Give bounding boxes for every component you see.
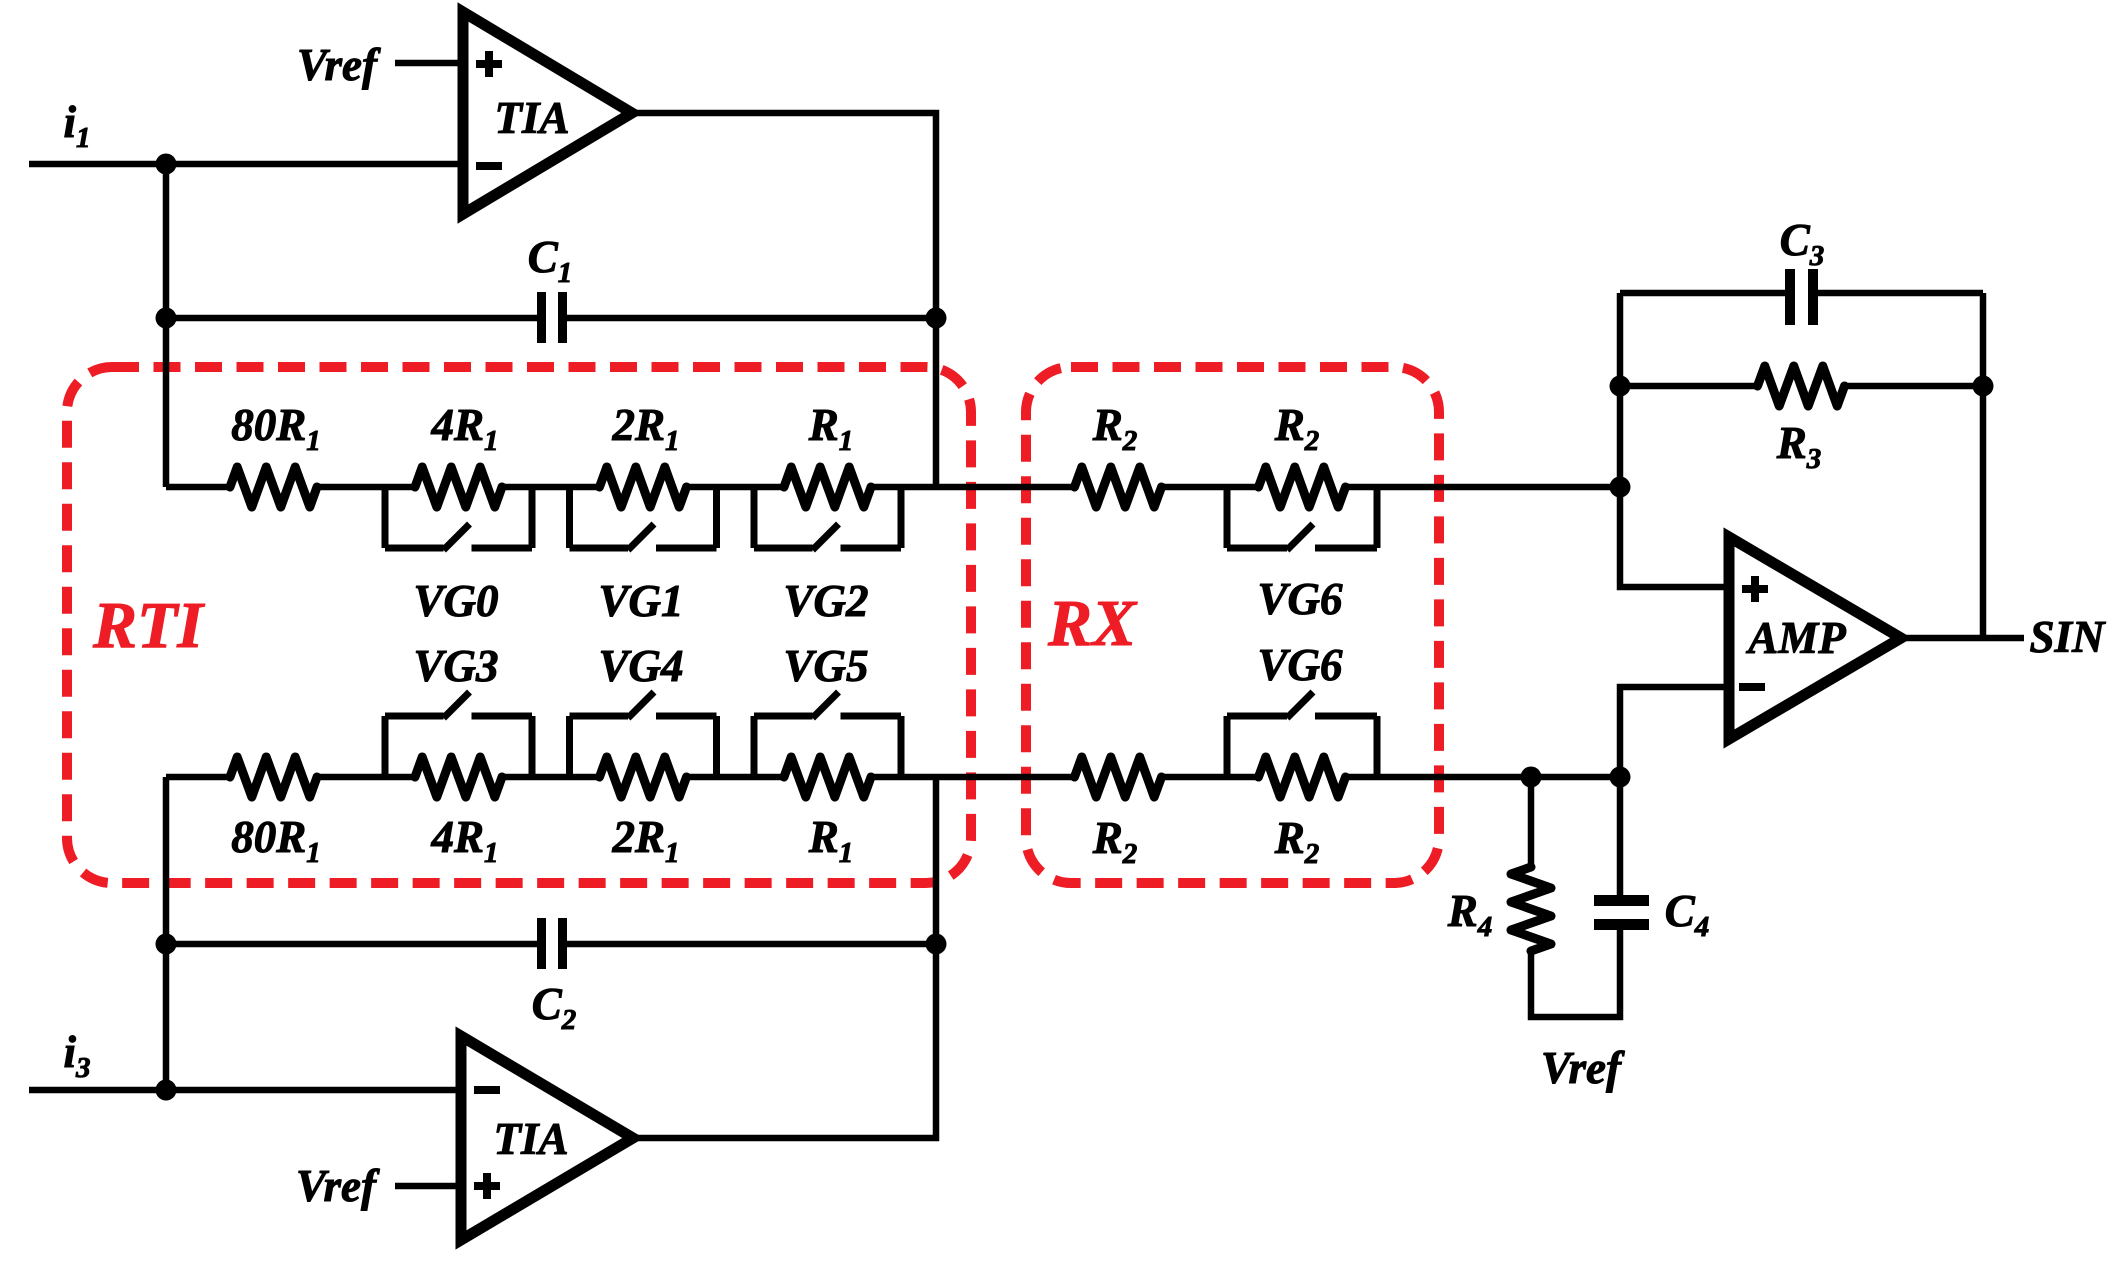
wire i1 input — [29, 161, 463, 168]
resistor 80R1 (bottom row) — [230, 757, 317, 797]
wire AMP + input node vertical — [1620, 293, 1729, 587]
svg-text:VG3: VG3 — [413, 641, 498, 691]
wire AMP output SIN — [1901, 635, 2024, 642]
node C2 left junction — [156, 934, 177, 955]
wire left vertical (i3 node) — [163, 777, 170, 1090]
wire feedback right vertical — [1980, 293, 1987, 638]
svg-text:Vref: Vref — [296, 1161, 380, 1211]
svg-text:VG1: VG1 — [598, 576, 683, 626]
wire Vref to TIA1 + — [395, 60, 463, 67]
resistor 2R1 (top row) — [600, 467, 687, 507]
RX block dashed box — [1026, 367, 1439, 883]
capacitor C3 — [1785, 269, 1818, 325]
svg-text:RX: RX — [1047, 587, 1138, 660]
RTI block dashed box — [67, 367, 971, 883]
svg-text:VG6: VG6 — [1257, 640, 1343, 690]
wire i3 input — [29, 1087, 461, 1094]
op-amp TIA1 + pin — [476, 60, 502, 68]
op-amp AMP - pin — [1739, 683, 1765, 691]
svg-text:VG5: VG5 — [783, 641, 868, 691]
svg-text:VG6: VG6 — [1257, 574, 1343, 624]
node R3 left junction — [1610, 376, 1631, 397]
wire R4 branch — [1528, 777, 1535, 867]
wire TIA2 output — [633, 777, 936, 1138]
wire row1 (RTI/RX top branch) — [166, 484, 230, 491]
wire C1 feedback — [166, 315, 538, 322]
switch VG0 — [385, 487, 532, 550]
resistor 2R1 (bottom row) — [600, 757, 687, 797]
op-amp TIA2 + pin — [474, 1182, 500, 1190]
wire TIA1 output — [632, 113, 936, 487]
op-amp TIA2 — [461, 1036, 633, 1240]
wire R3 branch — [1620, 383, 1758, 390]
resistor R2 (top row, second) — [1259, 467, 1346, 507]
resistor R1 (bottom row) — [784, 757, 871, 797]
resistor R3 — [1758, 366, 1845, 406]
wire AMP - input vertical — [1620, 687, 1729, 895]
op-amp AMP — [1729, 537, 1901, 739]
capacitor C1 — [537, 292, 567, 343]
resistor R4 — [1511, 867, 1551, 951]
svg-text:VG4: VG4 — [598, 641, 683, 691]
svg-text:Vref: Vref — [1541, 1043, 1625, 1093]
node i3 junction — [156, 1080, 177, 1101]
capacitor C4 — [1594, 895, 1649, 930]
switch VG5 — [754, 692, 901, 777]
resistor 4R1 (bottom row) — [415, 757, 502, 797]
switch VG6 (bottom) — [1227, 692, 1377, 777]
resistor R2 (bottom row, first) — [1075, 757, 1162, 797]
svg-text:AMP: AMP — [1745, 613, 1846, 663]
svg-text:VG0: VG0 — [413, 576, 498, 626]
svg-text:TIA: TIA — [493, 1114, 568, 1164]
node R3 right junction — [1973, 376, 1994, 397]
wire C2 feedback — [166, 941, 538, 948]
svg-text:SIN: SIN — [2029, 612, 2106, 662]
switch VG1 — [570, 487, 717, 550]
resistor R2 (bottom row, second) — [1259, 757, 1346, 797]
node C1 left junction — [156, 308, 177, 329]
resistor 80R1 (top row) — [230, 467, 317, 507]
wire C3 feedback top — [1620, 290, 1785, 297]
resistor 4R1 (top row) — [415, 467, 502, 507]
resistor R2 (top row, first) — [1075, 467, 1162, 507]
switch VG2 — [754, 487, 901, 550]
wire row2 (RTI/RX bottom branch) — [166, 774, 230, 781]
svg-text:VG2: VG2 — [783, 576, 868, 626]
switch VG3 — [385, 692, 532, 777]
op-amp TIA2 - pin — [474, 1086, 500, 1094]
svg-text:RTI: RTI — [92, 589, 205, 662]
op-amp AMP + pin — [1742, 585, 1768, 593]
node C2 right junction — [926, 934, 947, 955]
op-amp TIA1 - pin — [476, 162, 502, 170]
node C1 right junction — [926, 308, 947, 329]
op-amp TIA1 — [463, 12, 632, 214]
switch VG4 — [570, 692, 717, 777]
switch VG6 (top) — [1227, 487, 1377, 550]
capacitor C2 — [537, 918, 567, 969]
resistor R1 (top row) — [784, 467, 871, 507]
svg-text:TIA: TIA — [494, 93, 569, 143]
node R4 junction — [1521, 767, 1542, 788]
node AMP + input junction — [1610, 477, 1631, 498]
node i1 junction — [156, 154, 177, 175]
node AMP - input junction — [1610, 767, 1631, 788]
wire Vref to TIA2 + — [395, 1183, 461, 1190]
wire left vertical (i1 node) — [163, 164, 170, 487]
svg-text:Vref: Vref — [297, 40, 381, 90]
